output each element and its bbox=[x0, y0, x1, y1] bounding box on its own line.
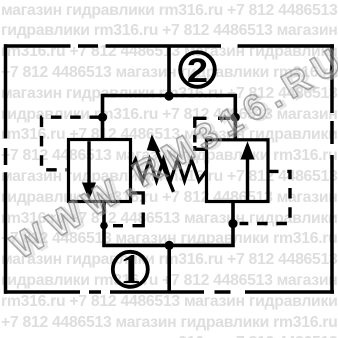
svg-text:2: 2 bbox=[187, 51, 208, 90]
svg-text:1: 1 bbox=[120, 247, 141, 293]
